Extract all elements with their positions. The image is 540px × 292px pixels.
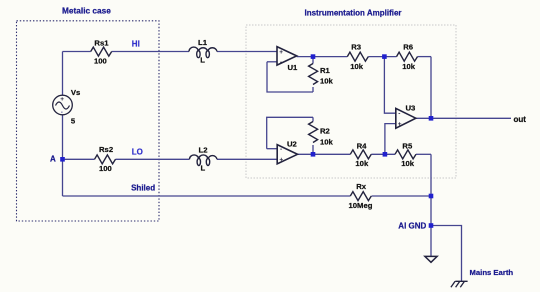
svg-text:10k: 10k xyxy=(320,77,334,86)
svg-text:L1: L1 xyxy=(198,38,208,47)
svg-text:10k: 10k xyxy=(320,137,334,146)
svg-text:U3: U3 xyxy=(406,103,416,112)
svg-text:R1: R1 xyxy=(320,66,331,75)
svg-text:10k: 10k xyxy=(355,159,369,168)
svg-text:out: out xyxy=(514,115,527,124)
svg-text:R3: R3 xyxy=(351,42,361,51)
svg-text:L2: L2 xyxy=(199,146,208,155)
svg-text:R4: R4 xyxy=(357,141,368,150)
svg-text:10k: 10k xyxy=(402,62,416,71)
svg-text:+: + xyxy=(279,49,283,56)
svg-text:Mains Earth: Mains Earth xyxy=(470,268,514,277)
svg-text:LO: LO xyxy=(132,148,143,157)
svg-text:R6: R6 xyxy=(403,42,413,51)
svg-text:L: L xyxy=(201,164,206,173)
svg-text:U2: U2 xyxy=(287,140,297,149)
svg-text:Shiled: Shiled xyxy=(131,183,155,192)
svg-text:Rs2: Rs2 xyxy=(99,145,113,154)
svg-text:100: 100 xyxy=(94,57,107,66)
svg-text:5: 5 xyxy=(71,117,76,126)
svg-text:-: - xyxy=(280,146,282,153)
svg-text:Metalic case: Metalic case xyxy=(62,6,111,16)
svg-text:Rs1: Rs1 xyxy=(94,39,109,48)
svg-text:Rx: Rx xyxy=(356,182,367,191)
svg-text:10k: 10k xyxy=(350,62,364,71)
svg-text:A: A xyxy=(50,154,56,163)
svg-text:100: 100 xyxy=(99,164,112,173)
svg-text:-: - xyxy=(280,59,282,66)
svg-text:+: + xyxy=(398,121,402,128)
svg-text:U1: U1 xyxy=(288,63,299,72)
svg-text:AI GND: AI GND xyxy=(398,222,426,231)
svg-text:-: - xyxy=(61,109,63,116)
svg-text:L: L xyxy=(200,56,205,65)
svg-text:+: + xyxy=(60,96,64,103)
svg-text:10k: 10k xyxy=(401,159,415,168)
svg-text:+: + xyxy=(279,157,283,164)
svg-text:-: - xyxy=(398,110,400,117)
svg-text:10Meg: 10Meg xyxy=(349,201,373,210)
svg-text:Vs: Vs xyxy=(71,88,80,97)
svg-text:HI: HI xyxy=(132,39,140,48)
svg-text:Instrumentation Amplifier: Instrumentation Amplifier xyxy=(305,8,402,17)
svg-text:R5: R5 xyxy=(402,141,413,150)
svg-text:R2: R2 xyxy=(320,127,330,136)
